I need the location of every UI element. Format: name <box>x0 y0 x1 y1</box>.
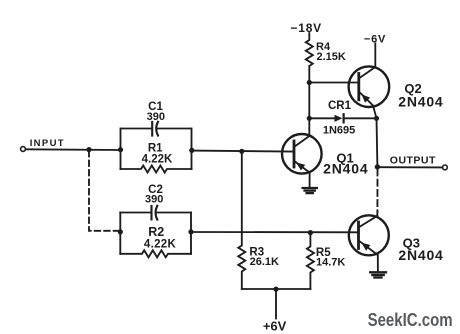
svg-text:4.22K: 4.22K <box>144 238 177 250</box>
wire R4 to CR1 junction <box>308 83 310 119</box>
svg-text:INPUT: INPUT <box>30 138 64 149</box>
svg-text:26.1K: 26.1K <box>250 256 279 268</box>
capacitor C1 <box>121 122 192 136</box>
node +6V tap <box>273 287 278 292</box>
wire R2 to Q3 base <box>191 231 359 233</box>
svg-text:+6V: +6V <box>263 319 287 334</box>
wire input to R1 box <box>26 148 121 151</box>
wire Q2 base <box>309 82 359 84</box>
transistor Q1 <box>282 118 322 187</box>
capacitor C2 <box>120 206 191 220</box>
svg-text:2N404: 2N404 <box>398 247 443 263</box>
resistor R4 <box>306 33 313 83</box>
svg-text:2.15K: 2.15K <box>317 51 346 63</box>
resistor R3 <box>238 232 245 289</box>
node A divider tap <box>239 149 244 154</box>
node input junction <box>86 147 91 152</box>
svg-text:−18V: −18V <box>290 21 322 35</box>
svg-text:4.22K: 4.22K <box>142 153 173 165</box>
node R1 right <box>189 148 194 153</box>
node output junction <box>375 164 380 169</box>
wire bottom rail <box>242 288 311 290</box>
svg-text:2N404: 2N404 <box>398 94 443 110</box>
node R4 bottom <box>307 80 312 85</box>
transistor Q3 <box>349 215 389 272</box>
wire R2 box left edge <box>119 213 121 254</box>
resistor R1 <box>121 166 192 173</box>
node R2 left <box>118 229 123 234</box>
node CR1 left <box>307 116 312 121</box>
svg-text:SeekIC.com: SeekIC.com <box>368 310 453 330</box>
svg-text:CR1: CR1 <box>328 100 352 112</box>
svg-text:−6V: −6V <box>364 34 386 46</box>
ground Q1 <box>303 188 317 193</box>
wire output <box>377 166 442 168</box>
svg-text:14.7K: 14.7K <box>316 257 345 269</box>
diode CR1 <box>309 114 376 122</box>
wire Q3 collector stub <box>376 212 378 216</box>
node R2 right <box>188 229 193 234</box>
svg-text:2N404: 2N404 <box>323 161 368 177</box>
output terminal <box>443 165 448 170</box>
node R5 top <box>308 230 313 235</box>
node CR1 right <box>374 116 379 121</box>
wire R1 box right edge <box>191 129 193 170</box>
wire dashed input to R2 <box>89 151 119 231</box>
svg-text:390: 390 <box>147 111 165 123</box>
resistor R5 <box>307 233 314 289</box>
resistor R2 <box>120 250 191 257</box>
wire +6V stub <box>275 289 277 319</box>
wire R1 to Q1 base <box>192 151 294 152</box>
wire R1 box left edge <box>120 129 122 170</box>
svg-text:R2: R2 <box>148 225 164 239</box>
ground Q3 <box>370 272 386 277</box>
transistor Q2 <box>349 44 390 119</box>
node R1 left <box>118 147 123 152</box>
svg-text:1N695: 1N695 <box>323 125 355 137</box>
wire node A down to R3 <box>241 151 243 232</box>
wire dashed output to Q3 <box>376 170 378 212</box>
wire Q2 emitter to output <box>376 118 379 167</box>
input terminal <box>21 147 26 152</box>
wire R2 box right edge <box>190 213 192 254</box>
svg-text:OUTPUT: OUTPUT <box>390 154 436 166</box>
svg-text:390: 390 <box>145 194 163 206</box>
